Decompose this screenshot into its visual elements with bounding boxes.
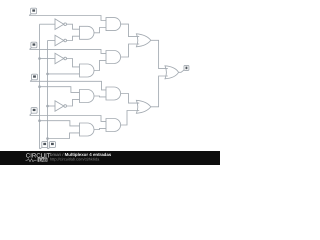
svg-text:LAB: LAB bbox=[39, 157, 47, 162]
wire bus A to inverter U1 input bbox=[40, 23, 56, 25]
wire AND_T4 out to OR2 bottom input bbox=[121, 111, 140, 126]
AND gate T3 bbox=[106, 87, 121, 100]
wire bus A tap to AND_M4 top input bbox=[40, 121, 80, 126]
wire bus B tap to AND_M4 bottom input bbox=[48, 133, 80, 139]
wire bus B tap to inverter U4 input bbox=[48, 105, 56, 107]
footer text bbox=[50, 152, 112, 162]
wire D0 to AND_T1 top input bbox=[29, 16, 106, 21]
AND gate M1 bbox=[80, 26, 95, 39]
wire AND_M2 out to AND_T2 bottom input bbox=[94, 60, 106, 70]
wire D2 to AND_T3 top input bbox=[30, 81, 106, 90]
OR gate O2 bbox=[136, 100, 150, 113]
wire select bus B vertical bbox=[47, 41, 49, 149]
svg-text:http://circuitlab.com/c8hk6da: http://circuitlab.com/c8hk6da bbox=[50, 157, 100, 162]
node flag S1 bbox=[40, 142, 48, 149]
wire U1 out to AND_M1 top input bbox=[67, 24, 80, 29]
wire OR2 out to final OR bottom input bbox=[151, 76, 168, 107]
AND gate M2 bbox=[80, 64, 95, 77]
wire final OR output to flag F bbox=[179, 70, 185, 72]
wire bus A tap to AND_M3 top input bbox=[40, 87, 80, 93]
CircuitLab logo bbox=[26, 152, 51, 162]
wire AND_M1 out to AND_T1 bottom input bbox=[94, 28, 106, 33]
wire AND_T2 out to OR1 bottom input bbox=[121, 44, 140, 57]
wire bus A tap to inverter U3 input bbox=[40, 58, 56, 60]
AND gate M4 bbox=[80, 123, 95, 136]
wire U2 out to AND_M1 bottom input bbox=[67, 36, 80, 40]
inverter U4 bbox=[55, 101, 67, 112]
inverter U1 bbox=[55, 19, 67, 30]
node flag D1 bbox=[30, 42, 37, 49]
node flag D3 bbox=[30, 108, 37, 116]
footer bar bbox=[0, 151, 220, 165]
flag labels bbox=[32, 9, 187, 145]
AND gate T2 bbox=[106, 51, 121, 64]
inverter U3 bbox=[55, 53, 67, 64]
OR gate O1 bbox=[136, 34, 150, 47]
wire bus B to inverter U2 input bbox=[48, 40, 56, 42]
junction dots bbox=[38, 57, 49, 140]
inverter U2 bbox=[55, 35, 67, 46]
OR gate O3 final bbox=[165, 66, 179, 79]
wire AND_M3 out to AND_T3 bottom input bbox=[94, 95, 106, 98]
wire OR1 out to final OR top input bbox=[151, 40, 168, 68]
wire AND_T3 out to OR2 top input bbox=[121, 94, 140, 104]
node flag D0 bbox=[29, 8, 36, 15]
wire U3 out to AND_M2 top input bbox=[67, 59, 80, 67]
wire bus B tap to AND_M2 bottom input bbox=[48, 73, 80, 75]
node flag S0 bbox=[48, 142, 56, 149]
wire AND_M4 out to AND_T4 bottom input bbox=[94, 128, 106, 129]
AND gate T4 bbox=[106, 119, 121, 132]
node flag D2 bbox=[30, 74, 37, 81]
wire AND_T1 out to OR1 top input bbox=[121, 24, 140, 36]
node flag F output bbox=[184, 65, 189, 70]
AND gate M3 bbox=[80, 90, 95, 103]
wire D3 to AND_T4 top input bbox=[30, 116, 106, 122]
wire select bus A vertical bbox=[39, 24, 41, 149]
AND gate T1 bbox=[106, 18, 121, 31]
wire D1 to AND_T2 top input bbox=[30, 49, 107, 53]
wire U4 out to AND_M3 bottom input bbox=[67, 99, 80, 106]
